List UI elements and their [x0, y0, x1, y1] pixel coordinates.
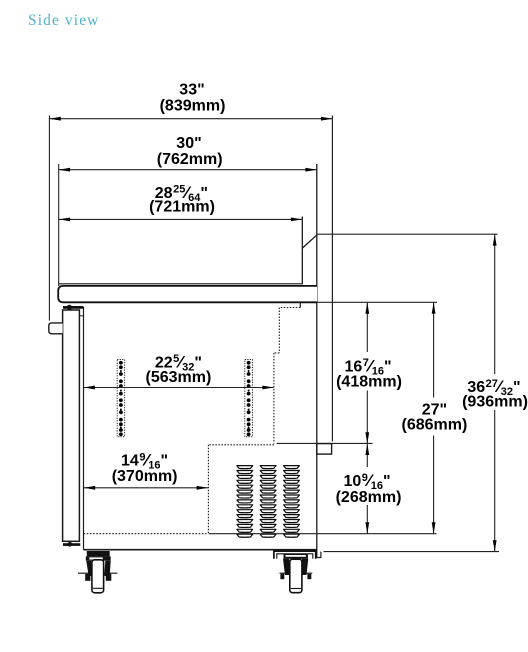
- cutting board bottom cap: [317, 444, 332, 455]
- door: [63, 310, 80, 541]
- svg-text:(686mm): (686mm): [401, 417, 467, 434]
- shelf pilaster left: [117, 360, 124, 437]
- extension line 27/16 top: [317, 301, 437, 303]
- extension line top (36in top): [317, 233, 498, 235]
- rail cavity bottom: [59, 283, 303, 285]
- hidden interior floor dotted: [84, 533, 207, 535]
- caster left: [78, 551, 117, 593]
- worktop band: [58, 286, 317, 302]
- svg-text:30": 30": [176, 135, 201, 152]
- dim line 33in: [49, 117, 332, 121]
- vent grille: [237, 466, 300, 538]
- dim line 28 25/64 in: [59, 218, 303, 222]
- corner bracket bottom right: [317, 550, 321, 558]
- dim line 30in: [59, 168, 317, 172]
- interior wall left: [83, 307, 85, 550]
- svg-text:(762mm): (762mm): [157, 151, 223, 168]
- svg-text:33": 33": [179, 81, 204, 98]
- dim line 16 7/16 vertical: [365, 302, 369, 443]
- svg-text:Side view: Side view: [28, 12, 99, 29]
- body bottom: [84, 549, 317, 551]
- svg-text:(268mm): (268mm): [336, 489, 402, 506]
- caster right: [274, 551, 316, 593]
- handle: [49, 323, 63, 334]
- extension line 36 bottom: [324, 551, 500, 553]
- hinge bottom: [63, 543, 80, 546]
- svg-text:(418mm): (418mm): [336, 373, 402, 390]
- svg-text:(370mm): (370mm): [112, 468, 178, 485]
- body right edge / 30in right extension: [316, 164, 318, 550]
- svg-text:(563mm): (563mm): [145, 369, 211, 386]
- dim line 10 9/16 vertical: [365, 444, 369, 534]
- compartment step solid: [299, 302, 301, 307]
- hidden compartment outline: [208, 308, 300, 534]
- dim line 36 27/32 vertical: [493, 234, 497, 551]
- extension line 33in left: [48, 116, 50, 321]
- shelf pilaster right: [245, 360, 253, 437]
- hinge top: [63, 306, 84, 309]
- extension line 30/28 shared left: [58, 164, 60, 286]
- diagonal brace top right: [303, 235, 317, 248]
- rail right edge / 28in right extension: [301, 217, 303, 285]
- extension line 33in right / cutting board right edge: [331, 116, 333, 442]
- dim line 22 5/32: [84, 386, 274, 390]
- svg-text:(721mm): (721mm): [149, 199, 215, 216]
- extension line 10 bottom solid: [209, 533, 437, 535]
- dim line 14 9/16: [84, 486, 208, 490]
- door gasket line: [79, 315, 83, 317]
- dim line 27 vertical: [432, 302, 436, 533]
- svg-text:(936mm): (936mm): [462, 394, 528, 411]
- svg-text:(839mm): (839mm): [160, 98, 226, 115]
- extension line 16 bottom: [277, 442, 373, 444]
